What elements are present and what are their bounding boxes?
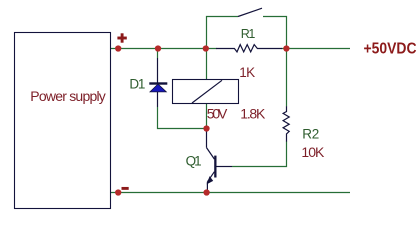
svg-text:R1: R1: [241, 27, 256, 41]
svg-text:Power supply: Power supply: [30, 88, 106, 104]
svg-text:+50VDC: +50VDC: [364, 41, 417, 58]
svg-text:50V: 50V: [207, 105, 228, 121]
svg-text:D1: D1: [129, 76, 145, 91]
svg-text:1K: 1K: [239, 65, 255, 80]
svg-text:R2: R2: [302, 127, 319, 142]
svg-text:1.8K: 1.8K: [240, 105, 266, 121]
svg-text:10K: 10K: [301, 144, 325, 160]
svg-text:Q1: Q1: [186, 154, 202, 169]
